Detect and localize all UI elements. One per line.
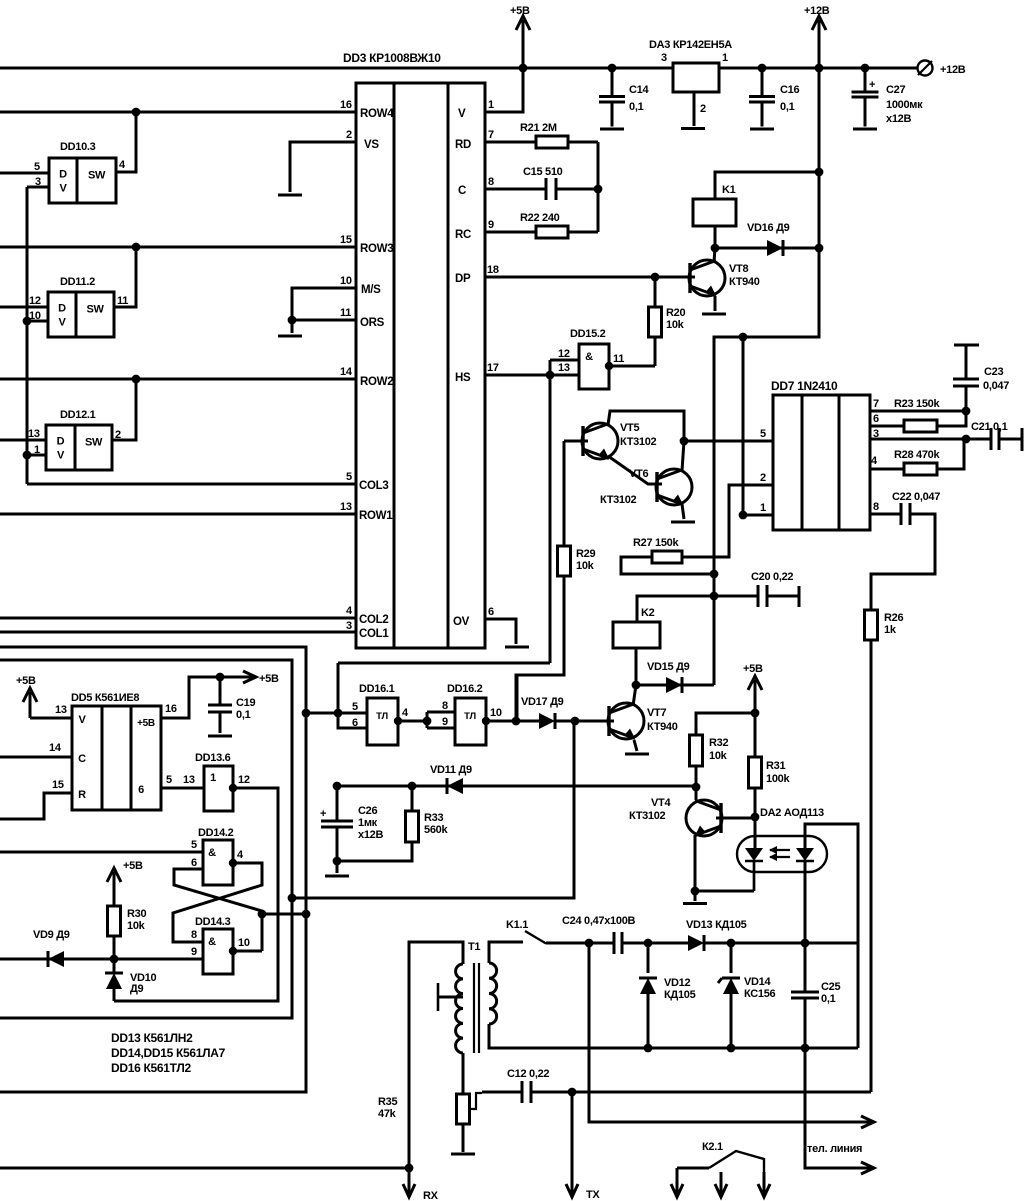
wire T1 left top [409, 942, 463, 1168]
wire M/S pin10 [292, 288, 356, 333]
junction ROW4/DD10.3 [132, 108, 141, 117]
svg-text:RX: RX [423, 1190, 439, 1201]
svg-text:SW: SW [85, 437, 103, 449]
wire DD3 bottom link [338, 662, 550, 665]
NAND gate DD14.3 [203, 929, 233, 974]
wire DD14.2 pin6 [174, 869, 262, 951]
label C19 value [236, 709, 251, 721]
IC DD3 KR1008VZh10 [356, 83, 485, 648]
svg-text:2: 2 [346, 129, 352, 141]
label C24 [562, 915, 636, 927]
resistor R32 [690, 735, 703, 787]
label R35 value [378, 1108, 397, 1120]
junction pin7/C23/R23 [962, 407, 971, 416]
label C26 value1 [358, 817, 378, 829]
junction +5V/R31/R32 [751, 709, 760, 718]
label DA3 [649, 39, 732, 51]
svg-text:11: 11 [340, 307, 351, 319]
svg-text:10: 10 [340, 275, 352, 287]
wire R26 down to C12 line [870, 640, 873, 1092]
svg-text:8: 8 [488, 176, 494, 188]
svg-text:DD14.3: DD14.3 [195, 916, 231, 928]
arrow K2.1 middle [715, 1172, 727, 1197]
svg-text:3: 3 [661, 52, 667, 64]
junction pin3/R28/C21 [962, 435, 971, 444]
junction pin5 bus [334, 709, 343, 718]
svg-text:+5В: +5В [123, 860, 143, 872]
svg-text:6: 6 [352, 717, 358, 729]
svg-text:КС156: КС156 [744, 988, 776, 1000]
svg-text:8: 8 [442, 700, 448, 712]
wire T1 prim bottom [462, 1053, 465, 1094]
pin 14 DD3 [340, 366, 353, 378]
resistor R31 [749, 713, 762, 817]
svg-text:R30: R30 [127, 908, 146, 920]
wire C25 bottom lead [804, 998, 807, 1048]
label DD7 [771, 379, 838, 393]
label VD9 [33, 929, 70, 941]
label R35 [378, 1096, 397, 1108]
wire bus line A [0, 647, 306, 1092]
svg-text:18: 18 [487, 264, 499, 276]
power +5V arrow (VT7 area) [743, 663, 763, 713]
wire K1.1 to C24 [546, 942, 614, 945]
label DA2 [760, 807, 824, 819]
wire K2 bottom [635, 648, 638, 685]
output bubble DD16.1 pin4 [394, 717, 402, 725]
svg-text:C26: C26 [358, 805, 377, 817]
relay K1 [693, 199, 736, 226]
photodiode inside DA2 [796, 848, 814, 861]
wire DD7 pin3 [870, 438, 966, 441]
capacitor C23 [953, 379, 979, 386]
svg-text:D: D [58, 303, 66, 315]
svg-text:DD13 К561ЛН2: DD13 К561ЛН2 [111, 1031, 193, 1045]
svg-text:13: 13 [55, 704, 67, 716]
pin 3 DA3 [661, 52, 667, 64]
junction C25 bottom [801, 1044, 810, 1053]
wire R29 to pin10 node [517, 576, 564, 721]
svg-text:R33: R33 [424, 812, 443, 824]
svg-text:ROW1: ROW1 [359, 510, 393, 522]
IC DD7 1N2410 [773, 395, 870, 530]
pin 10 DD14.3 [238, 937, 250, 949]
svg-text:DD16 К561ТЛ2: DD16 К561ТЛ2 [111, 1061, 192, 1075]
label phone line [807, 1143, 862, 1155]
pin 16 DD5 [165, 703, 177, 715]
output bubble DD14.3 pin10 [229, 947, 237, 955]
svg-text:КТ3102: КТ3102 [600, 494, 637, 506]
capacitor C24 [614, 932, 622, 954]
junction R27/+12V column [710, 570, 719, 579]
NAND gate DD14.2 [203, 840, 233, 885]
pin 1 DD12.1 [34, 444, 40, 456]
pin 13 DD13.6 [183, 774, 195, 786]
label DD13.6 [195, 752, 231, 764]
wire VT4 collector lead [695, 787, 698, 800]
optocoupler DA2 AOD113 body [737, 836, 827, 872]
wire C20 left [714, 595, 758, 598]
label R33 [424, 812, 443, 824]
pin 10 DD16.2 [490, 707, 502, 719]
ground DA3 [681, 127, 705, 130]
label DD3 port ROW1 [359, 510, 393, 522]
label C26 [358, 805, 377, 817]
label DD3 port V [458, 108, 466, 120]
svg-text:C21 0,1: C21 0,1 [971, 421, 1008, 433]
pin 8 DD16.2 [442, 700, 448, 712]
label DD3 port ROW3 [360, 243, 393, 255]
diode VD16 D9 [767, 240, 783, 256]
wire VT8 collector [714, 248, 715, 262]
junction K2/VD15/VT7 [632, 681, 641, 690]
svg-text:C: C [78, 753, 86, 765]
wire VT5 base column [563, 441, 566, 546]
wire pin10 line [486, 720, 539, 723]
svg-text:5: 5 [34, 161, 40, 173]
pin 12 DD13.6 [238, 774, 250, 786]
label VD13 [686, 919, 747, 931]
wire pin10 to VT5 base [516, 675, 564, 721]
svg-text:VD16 Д9: VD16 Д9 [747, 222, 790, 234]
pin 2 DD3 [346, 129, 352, 141]
transistor VT8 KT940 [689, 260, 760, 296]
label C25 value [821, 993, 836, 1005]
wire R28 right up [937, 439, 964, 469]
wire T1 sec top [489, 942, 523, 963]
wire DD10.3 pin5 [0, 172, 49, 175]
wire T1 tap [438, 996, 463, 999]
label C27 value2 [886, 113, 911, 125]
svg-text:OV: OV [453, 616, 470, 628]
wire ROW3 [0, 246, 356, 249]
svg-text:0,1: 0,1 [629, 101, 644, 113]
svg-text:DD16.2: DD16.2 [447, 683, 483, 695]
junction pin1 vert/+12V corner [739, 333, 748, 342]
svg-text:5: 5 [166, 774, 172, 786]
svg-text:ROW4: ROW4 [360, 108, 394, 120]
label C15 [523, 166, 563, 178]
junction select/pin1 [23, 451, 32, 460]
wire DD7 pin8 [870, 513, 901, 516]
label C26 plus [320, 808, 326, 820]
wire COL2 [0, 617, 356, 620]
ground VT8 [702, 313, 726, 316]
svg-text:ТЛ: ТЛ [376, 711, 388, 722]
svg-text:C25: C25 [821, 981, 840, 993]
svg-text:КТ3102: КТ3102 [620, 436, 657, 448]
svg-text:8: 8 [191, 929, 197, 941]
svg-text:DD14.2: DD14.2 [198, 827, 234, 839]
label VD12 type [664, 989, 696, 1001]
capacitor C27 [852, 92, 879, 97]
label DD3 port M/S [361, 284, 381, 296]
arrow K2.1 left [671, 1168, 683, 1197]
transistor VT5 KT3102 [582, 422, 657, 459]
label R22 [520, 212, 560, 224]
wire K2.1 left [677, 1167, 709, 1170]
svg-text:ТЛ: ТЛ [464, 711, 476, 722]
label R33 value [424, 824, 448, 836]
pin 4 DD10.3 [119, 159, 126, 171]
svg-text:C24 0,47х100В: C24 0,47х100В [562, 915, 636, 927]
wire HS line [485, 374, 550, 377]
svg-text:M/S: M/S [361, 284, 381, 296]
svg-text:ROW2: ROW2 [360, 376, 393, 388]
wire VT7 collector [633, 685, 636, 706]
ground VS [278, 194, 302, 197]
terminal T1 tap [437, 983, 440, 1011]
junction ROW2/DD12.1 [132, 375, 141, 384]
wire DD7 pin7 [870, 410, 966, 413]
wire VD14 top lead [730, 943, 733, 973]
wire C21 left lead [966, 438, 991, 441]
label R29 value [576, 560, 595, 572]
diode VD12 KD105 [639, 978, 657, 994]
resistor R29 [558, 546, 571, 675]
wire DD14.3 pin10 out [233, 950, 262, 953]
label table line1 [111, 1031, 193, 1045]
label C12 [507, 1068, 549, 1080]
label R23 [894, 398, 940, 410]
output bubble DD15.2 pin11 [605, 362, 613, 370]
wire C21 right lead [999, 438, 1022, 441]
svg-text:V: V [58, 317, 66, 329]
wire pin8 stub [427, 711, 455, 714]
svg-text:12: 12 [29, 295, 41, 307]
svg-text:VD17 Д9: VD17 Д9 [521, 696, 564, 708]
label R32 value [709, 750, 728, 762]
svg-text:11: 11 [117, 295, 128, 307]
svg-text:13: 13 [28, 428, 40, 440]
diode VD11 D9 [447, 778, 463, 794]
svg-text:6: 6 [873, 413, 879, 425]
capacitor C19 [208, 705, 232, 712]
wire DA3 pin2 lead [693, 92, 696, 126]
svg-text:R28 470k: R28 470k [894, 449, 940, 461]
pin 10 DD3 [340, 275, 352, 287]
junction M/S-ORS [288, 316, 297, 325]
wire R27 left [621, 557, 714, 574]
wire DD11.2 pin11 out [114, 247, 136, 307]
svg-text:DD16.1: DD16.1 [359, 683, 395, 695]
wire DD16 input vertical [338, 663, 367, 728]
switch contact K2.1 [709, 1151, 764, 1172]
svg-text:Д9: Д9 [130, 983, 144, 995]
svg-text:&: & [208, 847, 216, 859]
wire C23 upper lead [965, 346, 968, 379]
wire C16 bottom lead [761, 102, 764, 127]
svg-text:+5В: +5В [743, 663, 763, 675]
svg-text:TX: TX [586, 1189, 600, 1201]
pin 15 DD5 [52, 779, 64, 791]
analog switch DD12.1 [46, 425, 112, 470]
svg-text:VD15 Д9: VD15 Д9 [647, 661, 690, 673]
svg-text:R29: R29 [576, 548, 595, 560]
label C22 [892, 491, 940, 503]
diode VD13 KD105 [688, 935, 704, 951]
junction K1/VT8/VD16 [711, 244, 720, 253]
svg-text:C20 0,22: C20 0,22 [751, 571, 793, 583]
ground M/S-ORS [278, 335, 302, 338]
svg-text:+: + [869, 79, 875, 91]
svg-text:12: 12 [558, 348, 570, 360]
pin 9 DD14.3 [191, 946, 197, 958]
wire H1 to VT7 base [292, 721, 574, 898]
pin 8 DD3 right [488, 176, 494, 188]
analog switch DD11.2 [48, 292, 114, 337]
transistor VT6 KT3102 [600, 468, 692, 506]
svg-text:R26: R26 [884, 612, 903, 624]
schmitt trigger DD16.1 [367, 698, 398, 745]
wire VT5 emitter to VT6 base [608, 456, 662, 484]
svg-text:VT5: VT5 [620, 422, 639, 434]
power +5V arrow (DD5) [16, 675, 37, 718]
svg-text:10k: 10k [576, 560, 595, 572]
wire R20 to DD15.2 pin11 [609, 365, 655, 368]
wire VT8 emitter lead [714, 296, 717, 311]
svg-text:R20: R20 [666, 307, 685, 319]
svg-text:COL1: COL1 [359, 628, 389, 640]
pin 5 DD16.1 [352, 701, 358, 713]
ground C16 [750, 128, 774, 131]
diode VD17 D9 [539, 713, 555, 729]
capacitor C21 [991, 428, 999, 450]
transformer T1 secondary winding [489, 963, 497, 1024]
junction HS/pin13 [546, 371, 555, 380]
wire C24 node down [589, 943, 855, 1122]
wire VD12 bottom lead [647, 994, 650, 1048]
label R32 [709, 737, 728, 749]
label DD14.3 [195, 916, 231, 928]
pin 1 DD3 right [488, 99, 494, 111]
transformer T1 core [474, 963, 479, 1053]
resistor R26 [865, 610, 878, 640]
label DD3 port ROW2 [360, 376, 393, 388]
svg-text:HS: HS [455, 372, 471, 384]
wire VT5 collector up [608, 411, 684, 441]
svg-text:C: C [458, 185, 466, 197]
pin 3 DD3 [346, 620, 352, 632]
wire VD14 bottom lead [730, 994, 733, 1048]
label R26 [884, 612, 903, 624]
svg-text:10: 10 [490, 707, 502, 719]
wire DD14.3 pin9 (VD9 line) [0, 958, 203, 961]
wire VT6 emitter lead [682, 504, 684, 519]
wire photodiode bottom [804, 861, 807, 943]
junction C24 left node [585, 939, 594, 948]
capacitor C15 [546, 178, 556, 200]
label C21 [971, 421, 1008, 433]
svg-text:R23 150k: R23 150k [894, 398, 940, 410]
svg-text:7: 7 [873, 398, 879, 410]
wire VT4 emitter lead [694, 835, 697, 891]
svg-text:5: 5 [191, 839, 197, 851]
wire C26 bottom lead [336, 827, 339, 873]
terminal C20 right [798, 586, 801, 607]
junction lineA/H2 [302, 910, 311, 919]
pin 2 DD12.1 [115, 429, 121, 441]
label VD17 [521, 696, 564, 708]
svg-text:V: V [458, 108, 466, 120]
svg-text:VT4: VT4 [651, 797, 671, 809]
zener VD14 KS156 [718, 978, 740, 994]
wire VS pin2 [290, 142, 356, 192]
pin 13 DD15.2 [558, 362, 570, 374]
svg-text:C14: C14 [629, 84, 649, 96]
pin 1 DA3 [722, 52, 728, 64]
junction VD14 bottom [727, 1044, 736, 1053]
label VD16 [747, 222, 790, 234]
label DD3 port HS [455, 372, 471, 384]
junction bus/+5V/pin1 [519, 64, 528, 73]
label C19 [236, 697, 255, 709]
wire K1 bottom [714, 226, 717, 248]
pin 7 DD7 [873, 398, 879, 410]
wire DD7 pin1 [743, 337, 773, 515]
junction VT5/VT6 collectors [680, 437, 689, 446]
wire ROW4 [0, 111, 356, 114]
svg-text:+: + [320, 808, 326, 820]
wire DD10.3 pin3 [27, 186, 49, 189]
power +12V arrow (top) [804, 5, 830, 68]
svg-text:100k: 100k [766, 773, 790, 785]
wire C26 top lead [336, 786, 339, 821]
ground VT4/DA2 [683, 902, 707, 905]
label R31 [766, 760, 785, 772]
svg-text:0,1: 0,1 [236, 709, 251, 721]
svg-text:C22 0,047: C22 0,047 [892, 491, 940, 503]
svg-text:10k: 10k [709, 750, 728, 762]
svg-text:+5В: +5В [16, 675, 36, 687]
svg-text:5: 5 [352, 701, 358, 713]
junction select/pin10 [23, 317, 32, 326]
ground C14 [600, 128, 624, 131]
svg-text:15: 15 [52, 779, 64, 791]
label DD3 port COL3 [359, 480, 388, 492]
label DD16.2 [447, 683, 483, 695]
wire VD10 bottom lead [113, 989, 116, 1001]
pin 12 DD11.2 [29, 295, 41, 307]
NAND gate DD15.2 [579, 344, 609, 389]
wire H2 link [262, 913, 306, 916]
svg-text:1k: 1k [884, 624, 897, 636]
svg-text:DD10.3: DD10.3 [60, 141, 96, 153]
svg-text:2: 2 [700, 103, 706, 115]
svg-text:VD14: VD14 [744, 976, 771, 988]
trimmer tap R35 [470, 1093, 482, 1109]
pin 18 DD3 right [487, 264, 499, 276]
wire photodiode top [805, 824, 858, 1048]
analog switch DD10.3 [49, 158, 116, 203]
wire R33 bottom [337, 842, 412, 861]
pin 6 DD16.1 [352, 717, 358, 729]
svg-text:C23: C23 [984, 366, 1003, 378]
junction C26/R33 bottom [333, 857, 342, 866]
svg-text:V: V [57, 450, 65, 462]
svg-text:0,1: 0,1 [821, 993, 836, 1005]
wire V pin1 to bus [485, 68, 523, 112]
wire VD13 to VD14 [704, 942, 805, 945]
pin 1 DD7 [760, 502, 766, 514]
wire +12V top bus (left part) [0, 67, 673, 70]
pin 5 DD10.3 [34, 161, 40, 173]
pin 5 DD14.2 [191, 839, 197, 851]
wire C16 top lead [761, 68, 764, 97]
svg-text:VD11 Д9: VD11 Д9 [430, 764, 472, 776]
label DD3 port RD [455, 139, 471, 151]
power +5V arrow (top) [510, 5, 530, 68]
